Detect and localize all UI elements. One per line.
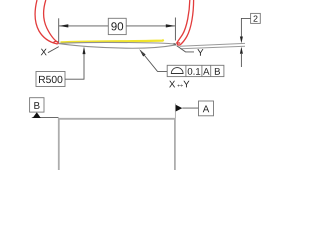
wire: section top surface line (59, 42, 176, 44)
datum A: extension line (174, 104, 176, 119)
datum A: label box (199, 101, 214, 116)
dimension 2: lower arrowhead pointing up (240, 47, 243, 54)
feature control frame: cell divider after tolerance (201, 65, 203, 76)
dimension 2: upper arrowhead pointing down (240, 37, 243, 44)
radius R500: value box (36, 72, 65, 87)
wire: straight sheet bottom line right of Y (181, 46, 246, 48)
datum A: filled triangle (176, 105, 183, 112)
dimension 90: right arrowhead (166, 24, 175, 27)
radius R500: arrowhead pointing up to arc (83, 47, 86, 55)
node: closed wedge at Y end (174, 44, 177, 45)
datum A: label text (203, 105, 210, 112)
feature control frame: tolerance text 0.1 (188, 68, 201, 75)
dimension 90: right extension line (174, 18, 176, 41)
dimension 90: value box (108, 18, 126, 34)
feature control frame: datum reference A (203, 68, 209, 75)
wire: section bottom surface line (59, 44, 176, 49)
dimension 90: dimension line left part (59, 25, 109, 27)
dimension 2: value box (251, 13, 261, 23)
dimension 2: lower extension tail (240, 53, 242, 67)
dimension 90: value text (111, 22, 123, 30)
feature control frame: leader line (141, 51, 168, 72)
radius R500: value text (39, 76, 62, 83)
feature control frame: cell divider after datum A (210, 65, 212, 76)
wire: left bend outer red curve (35, 0, 58, 44)
wire: straight sheet top line right of Y (180, 43, 246, 46)
datum B: extension line (32, 117, 59, 119)
datum B: label box (30, 98, 44, 112)
front view: part outline rectangle (open bottom) (59, 119, 175, 170)
label X: text (41, 49, 47, 56)
node: yellow highlighted surface X to Y (61, 40, 164, 43)
label Y: leader (177, 46, 194, 52)
feature control frame: cell divider after symbol (185, 65, 187, 76)
label X: leader (48, 47, 59, 53)
wire: right bend inner red curve (176, 0, 189, 44)
wire: right bend outer red curve with end hook (177, 0, 193, 45)
datum B: filled triangle (33, 112, 41, 118)
feature control frame: leader arrowhead at arc (139, 49, 145, 56)
label Y: text (197, 49, 203, 56)
dimension 90: left extension line (58, 18, 60, 42)
datum B: label text (34, 102, 39, 109)
dimension 2: leader from box (241, 18, 250, 37)
datum A: leader line (182, 107, 198, 109)
feature control frame: surface profile symbol (171, 68, 183, 74)
feature control frame: outer box (167, 65, 224, 76)
dimension 2: value text (254, 15, 258, 21)
dimension 90: left arrowhead (59, 24, 68, 27)
dimension 90: dimension line right part (126, 25, 175, 27)
note: between X and Y text (169, 81, 175, 88)
feature control frame: datum reference B (215, 68, 220, 75)
wire: left bend inner red curve (44, 0, 59, 43)
radius R500: leader line (65, 49, 84, 79)
